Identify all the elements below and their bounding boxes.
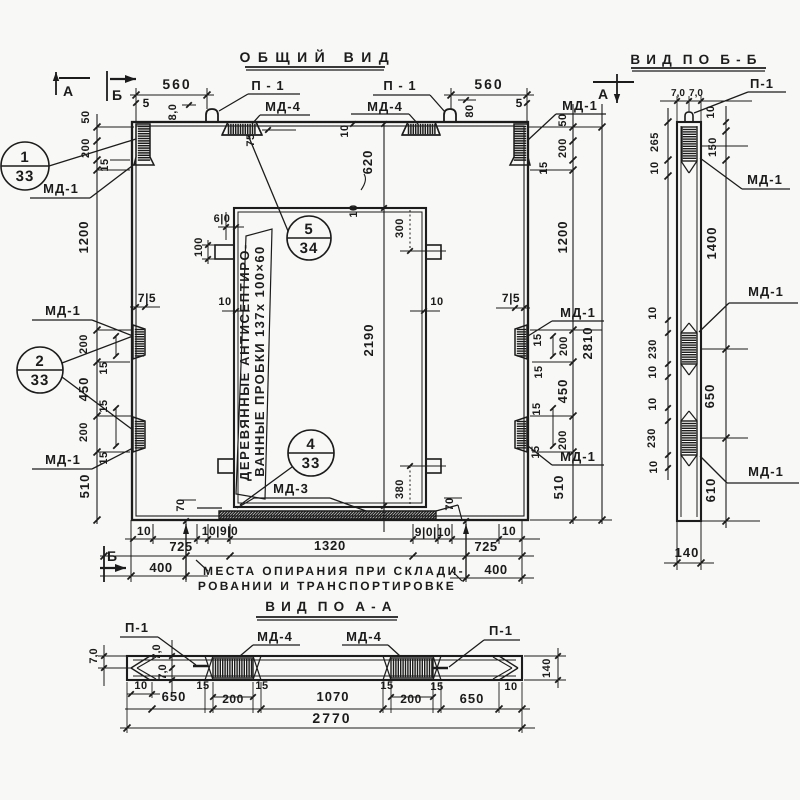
svg-text:МД-1: МД-1 [748, 464, 784, 479]
svg-text:15: 15 [196, 680, 209, 692]
svg-text:15: 15 [538, 161, 550, 174]
svg-text:МД-1: МД-1 [560, 449, 596, 464]
svg-text:300: 300 [394, 218, 406, 238]
svg-text:10|9|0: 10|9|0 [202, 524, 238, 538]
dim 10 at top edge x353 [350, 121, 356, 127]
left dim line x97 [96, 114, 98, 300]
Б-Б bar outer outline [677, 122, 701, 521]
А-А dim 200 ticks right [391, 696, 433, 698]
svg-text:75: 75 [245, 133, 257, 146]
svg-text:80: 80 [464, 104, 476, 117]
svg-text:230: 230 [646, 428, 658, 448]
svg-text:А: А [598, 86, 608, 102]
svg-text:5: 5 [304, 221, 313, 238]
svg-text:7|5: 7|5 [138, 291, 156, 305]
inner opening inner outline [238, 212, 422, 503]
svg-text:5: 5 [516, 96, 523, 110]
svg-text:15: 15 [531, 402, 543, 415]
svg-text:140: 140 [541, 658, 553, 678]
svg-text:10: 10 [649, 161, 661, 174]
А-А left end chamfer [131, 656, 150, 668]
Б-Б bar inner lines [680, 126, 682, 517]
svg-text:7,0: 7,0 [157, 664, 169, 679]
А-А dim 200 ticks left [213, 696, 253, 698]
ref circle 1/33 [1, 142, 49, 190]
svg-text:МД-1: МД-1 [560, 305, 596, 320]
support arrow right [465, 524, 467, 580]
svg-text:50: 50 [557, 113, 569, 126]
svg-text:400: 400 [484, 562, 507, 577]
wooden plug МД-1 left edge lower (hatched) [133, 417, 145, 452]
svg-text:230: 230 [647, 339, 659, 359]
svg-text:10: 10 [647, 306, 659, 319]
svg-text:6|0: 6|0 [214, 213, 231, 225]
svg-text:МД-1: МД-1 [45, 452, 81, 467]
inner opening outer outline [234, 208, 426, 507]
svg-text:П-1: П-1 [125, 620, 149, 635]
А-А bar outer outline [127, 656, 522, 680]
Б-Б plug МД-1 top (hatched) [682, 127, 697, 161]
svg-text:1200: 1200 [555, 221, 570, 254]
wooden plug МД-1 top-left corner (hatched) [134, 124, 154, 165]
svg-text:10: 10 [647, 397, 659, 410]
plug block inner-left upper [215, 245, 234, 259]
wooden plug МД-4 top right (hatched) [402, 122, 440, 135]
lifting loop П-1 bump right [444, 109, 456, 122]
А-А right end chamfer [499, 656, 518, 668]
svg-text:10: 10 [647, 365, 659, 378]
А-А plug МД-4 left (hatched) [213, 658, 253, 678]
bottom extension verticals [130, 520, 132, 582]
svg-text:1200: 1200 [76, 221, 91, 254]
section marker Б top-left [106, 71, 108, 101]
section marker A top-right (arrow down) [593, 81, 634, 83]
svg-text:560: 560 [162, 76, 191, 92]
dim 620 vertical (panel top to opening top) [383, 122, 385, 208]
svg-text:МД-1: МД-1 [45, 303, 81, 318]
svg-text:620: 620 [360, 150, 375, 175]
svg-text:380: 380 [394, 479, 406, 499]
ref circle 2/33 [17, 347, 63, 393]
svg-text:200: 200 [222, 692, 244, 706]
lifting loop П-1 bump left [206, 109, 218, 122]
svg-text:50: 50 [80, 110, 92, 123]
section marker A top-left [55, 72, 57, 95]
svg-text:МД-1: МД-1 [747, 172, 783, 187]
svg-text:1070: 1070 [317, 689, 350, 704]
Б-Б v-notches around bottom plug [681, 411, 689, 421]
svg-text:МД-1: МД-1 [562, 98, 598, 113]
А-А dim line 2770 y728 [120, 727, 535, 729]
ref circle 5/34 [287, 216, 331, 260]
svg-text:П-1: П-1 [750, 76, 774, 91]
svg-text:650: 650 [702, 384, 717, 409]
dim line 400 left y576 [100, 575, 208, 577]
svg-text:В И Д П О А - А: В И Д П О А - А [265, 599, 392, 614]
Б-Б dim 140 bottom [676, 521, 678, 570]
svg-text:МД-4: МД-4 [367, 99, 403, 114]
svg-text:100: 100 [193, 237, 205, 257]
svg-text:ДЕРЕВЯННЫЕ АНТИСЕПТИРО-: ДЕРЕВЯННЫЕ АНТИСЕПТИРО- [237, 243, 252, 481]
main panel outer outline [132, 122, 528, 520]
ref circle 4/33 [288, 430, 334, 476]
svg-text:400: 400 [149, 560, 172, 575]
Б-Б v-notch below top plug [681, 161, 689, 173]
right extension lines [528, 126, 602, 128]
svg-text:РОВАНИИ И ТРАНСПОРТИРОВКЕ: РОВАНИИ И ТРАНСПОРТИРОВКЕ [198, 579, 456, 593]
plug block inner-right lower [426, 459, 441, 473]
svg-text:МЕСТА ОПИРАНИЯ ПРИ СКЛАДИ-: МЕСТА ОПИРАНИЯ ПРИ СКЛАДИ- [203, 564, 465, 578]
main panel inner outline [136, 126, 524, 516]
dim 300 inner right top [409, 210, 411, 251]
svg-text:70: 70 [444, 497, 456, 510]
svg-text:МД-3: МД-3 [273, 481, 309, 496]
plug block inner-right upper [426, 245, 441, 259]
svg-text:150: 150 [707, 137, 719, 157]
svg-text:МД-4: МД-4 [346, 629, 382, 644]
wooden plug МД-1 left edge upper (hatched) [133, 325, 145, 359]
svg-text:2770: 2770 [312, 710, 351, 726]
leader from text to left support [196, 560, 208, 571]
svg-text:15: 15 [255, 680, 268, 692]
svg-text:МД-4: МД-4 [265, 99, 301, 114]
svg-text:МД-4: МД-4 [257, 629, 293, 644]
svg-text:1: 1 [20, 149, 29, 166]
svg-text:МД-1: МД-1 [748, 284, 784, 299]
svg-text:10: 10 [502, 524, 516, 538]
svg-text:10: 10 [348, 204, 360, 217]
support arrow left [185, 524, 187, 580]
leader from text to right support [452, 571, 462, 581]
svg-text:725: 725 [169, 539, 192, 554]
Б-Б dim 7,0 7,0 top [660, 100, 752, 102]
svg-text:725: 725 [474, 539, 497, 554]
wooden plug МД-1 right edge upper (hatched) [515, 325, 527, 359]
svg-text:10: 10 [218, 296, 231, 308]
svg-text:7|5: 7|5 [502, 291, 520, 305]
svg-text:О Б Щ И Й В И Д: О Б Щ И Й В И Д [239, 49, 390, 65]
svg-text:10: 10 [134, 680, 147, 692]
dim line y556 [100, 555, 534, 557]
svg-text:10: 10 [648, 460, 660, 473]
svg-text:140: 140 [675, 545, 700, 560]
svg-text:7,0: 7,0 [151, 644, 163, 659]
А-А П-1 dash left [193, 665, 208, 668]
right dim line 2810 x602 [601, 104, 603, 524]
right dim line x573 [572, 104, 574, 524]
svg-text:33: 33 [31, 372, 50, 389]
svg-text:450: 450 [555, 379, 570, 404]
svg-text:34: 34 [300, 240, 319, 257]
svg-text:10: 10 [430, 296, 443, 308]
svg-text:Б: Б [112, 87, 122, 103]
wooden plug МД-1 top-right corner (hatched) [510, 124, 530, 165]
svg-text:В И Д П О Б - Б: В И Д П О Б - Б [630, 52, 757, 67]
svg-text:200: 200 [557, 430, 569, 450]
svg-text:15: 15 [98, 361, 110, 374]
А-А dovetail marks left plug [205, 656, 213, 680]
dim 2190 vertical [383, 208, 385, 532]
Б-Б left dim line [667, 108, 669, 480]
dim line 560 top-left [130, 94, 214, 96]
svg-text:200: 200 [400, 692, 422, 706]
dim line 400 right y578 [450, 577, 534, 579]
svg-text:510: 510 [551, 475, 566, 500]
А-А bar inner lines [133, 659, 516, 661]
svg-text:П - 1: П - 1 [251, 78, 284, 93]
А-А dovetail marks right plug [383, 656, 391, 680]
svg-text:10: 10 [137, 524, 151, 538]
dim line 560 top-right [444, 94, 534, 96]
wooden plug МД-1 right edge lower (hatched) [515, 417, 527, 452]
svg-text:15: 15 [380, 680, 393, 692]
svg-text:200: 200 [78, 422, 90, 442]
svg-text:650: 650 [162, 689, 187, 704]
right dims 15/200/15/450/15/200 for side plugs [570, 327, 577, 334]
svg-text:15: 15 [99, 158, 111, 171]
А-А main dim line y709 [125, 708, 530, 710]
svg-text:15: 15 [532, 333, 544, 346]
svg-text:650: 650 [460, 691, 485, 706]
А-А dim 140 right [524, 655, 566, 657]
section marker Б bottom-left [103, 546, 105, 582]
svg-text:510: 510 [77, 474, 92, 499]
left dims 200/15/450/15/200/15 for side plugs [94, 327, 101, 334]
support strip МД-3 (hatched) [197, 507, 222, 509]
slanted box around plug note [236, 229, 272, 499]
svg-text:2810: 2810 [580, 327, 595, 360]
svg-text:33: 33 [16, 168, 35, 185]
svg-text:1320: 1320 [314, 538, 346, 553]
left dim extension lines [97, 126, 134, 128]
svg-text:2: 2 [35, 353, 44, 370]
А-А П-1 dash right [433, 667, 448, 670]
svg-text:200: 200 [558, 336, 570, 356]
svg-text:9|0|10: 9|0|10 [415, 525, 451, 539]
svg-text:265: 265 [649, 132, 661, 152]
svg-text:1400: 1400 [704, 227, 719, 260]
svg-text:200: 200 [557, 138, 569, 158]
dim line y539 bottom [125, 538, 540, 540]
svg-text:33: 33 [302, 455, 321, 472]
Б-Б v-notches around middle plug [681, 323, 689, 333]
Б-Б plug МД-1 middle (hatched) [681, 333, 697, 364]
svg-text:10: 10 [339, 124, 351, 137]
wooden plug МД-4 top left (hatched) [222, 122, 262, 135]
Б-Б right dim line [725, 106, 727, 528]
svg-text:А: А [63, 83, 73, 99]
svg-text:200: 200 [78, 334, 90, 354]
svg-text:5: 5 [143, 96, 150, 110]
svg-text:10: 10 [504, 681, 517, 693]
svg-text:610: 610 [703, 478, 718, 503]
svg-text:П-1: П-1 [489, 623, 513, 638]
А-А extension verticals [204, 682, 206, 713]
svg-text:ВАННЫЕ ПРОБКИ 137х 100×60: ВАННЫЕ ПРОБКИ 137х 100×60 [252, 245, 267, 476]
svg-text:8,0: 8,0 [167, 104, 179, 121]
svg-text:7,0: 7,0 [671, 88, 685, 99]
svg-text:560: 560 [474, 76, 503, 92]
А-А plug МД-4 right (hatched) [391, 658, 433, 678]
break squiggle on 620 line [361, 174, 365, 190]
svg-text:15: 15 [533, 365, 545, 378]
svg-text:П - 1: П - 1 [383, 78, 416, 93]
svg-text:4: 4 [306, 436, 315, 453]
Б-Б П-1 nub [685, 112, 693, 122]
svg-text:2190: 2190 [361, 324, 376, 357]
Б-Б plug МД-1 bottom (hatched) [681, 421, 697, 455]
svg-text:МД-1: МД-1 [43, 181, 79, 196]
svg-text:15: 15 [430, 681, 443, 693]
plug block inner-left lower [218, 459, 234, 473]
dim 75 under МД-4 left [265, 127, 271, 133]
